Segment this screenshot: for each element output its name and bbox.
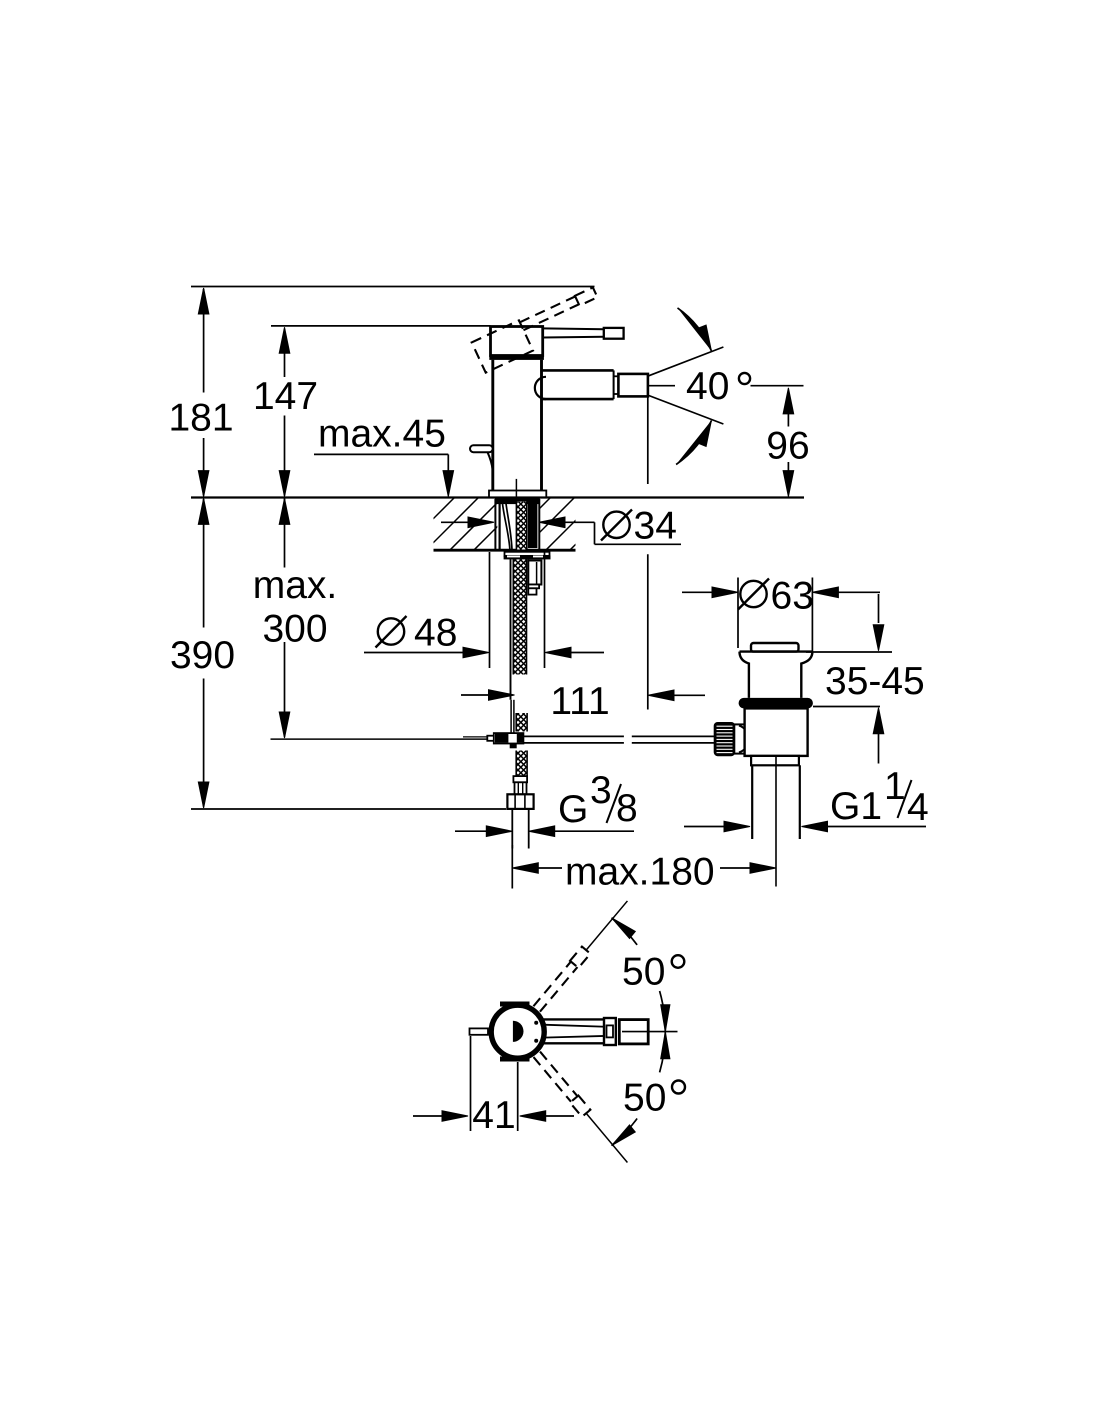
faucet spout	[542, 369, 614, 372]
faucet body column	[491, 360, 494, 491]
top view centerline	[622, 1031, 678, 1033]
reference line bottom (390)	[191, 808, 506, 810]
dimension Ø48 arrows	[364, 652, 464, 654]
dimension 35-45 vertical line and arrows	[878, 594, 880, 623]
top view aerator	[619, 1020, 648, 1044]
drain valve body	[745, 708, 808, 756]
faucet lever grip	[604, 328, 624, 339]
svg-text:4: 4	[907, 786, 929, 829]
locknut under counter	[504, 556, 551, 560]
dimension label Ø34	[603, 512, 629, 538]
faucet cartridge head	[491, 327, 543, 356]
braided supply hose	[516, 502, 526, 550]
drain top flange	[740, 650, 813, 652]
faucet lever arm	[543, 327, 604, 330]
pop-up rod vertical section	[510, 700, 512, 733]
counter top line	[191, 496, 804, 498]
50 deg dimension arcs with arrows	[660, 991, 666, 1032]
drain centerline	[775, 756, 777, 887]
drain body step	[751, 756, 799, 765]
svg-text:35-45: 35-45	[825, 660, 925, 703]
reference line top (handle max height, 181)	[191, 286, 595, 288]
svg-text:8: 8	[616, 787, 638, 830]
dimension label Ø48	[378, 618, 404, 644]
svg-text:300: 300	[262, 608, 327, 651]
supply hose end fitting G3/8	[513, 776, 527, 782]
dimension G3/8 arrows	[455, 830, 487, 832]
svg-text:50: 50	[622, 951, 665, 994]
dimension max.300 vertical line	[284, 499, 286, 568]
faucet base plate	[489, 491, 546, 498]
dimension 41 arrows	[413, 1115, 443, 1117]
svg-text:max.: max.	[253, 564, 338, 607]
svg-text:1: 1	[884, 765, 906, 808]
svg-text:48: 48	[414, 612, 457, 655]
svg-text:G1: G1	[830, 785, 882, 828]
dimension Ø34 arrows and leader	[441, 521, 469, 523]
shank tube walls under nut	[510, 559, 512, 700]
pop-up rod left end cap	[487, 736, 494, 741]
top view handle tip	[470, 1028, 489, 1034]
drain tailpipe	[751, 765, 753, 839]
dimension 390 vertical line	[203, 499, 205, 628]
mounting hole walls	[494, 499, 496, 550]
dimension max.180 arrows	[512, 863, 538, 874]
svg-text:181: 181	[168, 397, 233, 440]
pop-up rod horizontal extension line	[271, 738, 488, 740]
svg-text:max.45: max.45	[318, 413, 446, 456]
shank lower steps	[528, 561, 541, 585]
dimension 390 arrows	[198, 498, 209, 524]
counter bottom line	[434, 549, 576, 552]
faucet handle raised position (dashed)	[472, 286, 607, 372]
40 deg dimension arcs with arrows	[678, 308, 712, 351]
top view cartridge D-profile	[513, 1021, 524, 1042]
dimension G1 1/4 arrows	[684, 826, 725, 828]
dimension max.45 arrow	[443, 471, 454, 497]
dimension Ø48 extension lines	[489, 552, 491, 668]
spray angle 40 deg fan lines	[623, 347, 723, 386]
top view spout end cap	[604, 1018, 616, 1045]
shank seal cap	[495, 499, 540, 505]
svg-text:50: 50	[623, 1077, 666, 1120]
svg-text:390: 390	[170, 634, 235, 677]
counter hatching left block	[402, 498, 527, 551]
svg-text:96: 96	[766, 425, 809, 468]
dimension max.180 extension lines	[511, 845, 513, 889]
reference line 147 (body height)	[271, 325, 491, 327]
dimension max.300 arrows	[279, 498, 290, 524]
drain rod transition piece	[734, 724, 754, 753]
faucet centerline	[515, 479, 517, 497]
dimension 41 extension lines	[470, 1036, 472, 1131]
top view handle swung up 50 deg (dashed)	[533, 897, 632, 1012]
drain rubber seal	[739, 698, 813, 709]
dimension 147 arrows	[279, 327, 290, 353]
top view handle swung down 50 deg (dashed)	[533, 1051, 632, 1166]
svg-text:41: 41	[472, 1094, 515, 1137]
svg-text:G: G	[558, 788, 588, 831]
pop-up rod horizontal bar	[523, 735, 624, 737]
dimension 111 arrows	[461, 694, 489, 696]
pop-up rod knob	[470, 445, 493, 452]
pop-up rod linkage tee	[494, 733, 524, 743]
dimension 96 arrows	[783, 388, 794, 414]
washer under counter	[505, 552, 550, 556]
dimension 181 arrows	[198, 288, 209, 314]
line from 40deg label to 96 dimension	[751, 385, 804, 387]
dimension Ø63 extension lines	[737, 578, 739, 649]
drain knurled adjusting knob	[715, 723, 735, 755]
spout end joint	[613, 370, 615, 399]
supply pipe G3/8	[511, 809, 513, 849]
counter hatching right block	[498, 498, 623, 551]
drain push button	[751, 643, 799, 652]
top view screw dots	[534, 1021, 538, 1025]
flexible hose curved in hole	[502, 502, 510, 550]
svg-text:34: 34	[634, 504, 677, 547]
faucet head bottom band	[489, 355, 544, 360]
aerator extension line	[647, 396, 649, 484]
svg-text:63: 63	[771, 575, 814, 618]
svg-text:3: 3	[590, 769, 612, 812]
shank wall section (black)	[528, 503, 538, 548]
svg-text:147: 147	[253, 375, 318, 418]
dimension 35-45 extension lines	[806, 651, 892, 653]
aerator (mousseur)	[618, 374, 648, 397]
dimension 147 vertical line	[284, 329, 286, 377]
dimension 96 vertical line	[787, 413, 789, 427]
dimension 181 vertical line	[203, 289, 205, 393]
dimension Ø63 arrows	[682, 591, 713, 593]
svg-text:40: 40	[686, 365, 729, 408]
svg-text:max.180: max.180	[565, 851, 715, 894]
top view faucet body circle	[491, 1005, 544, 1058]
top view spout	[540, 1018, 613, 1020]
svg-text:111: 111	[550, 680, 609, 723]
dimension label Ø63	[740, 581, 766, 607]
